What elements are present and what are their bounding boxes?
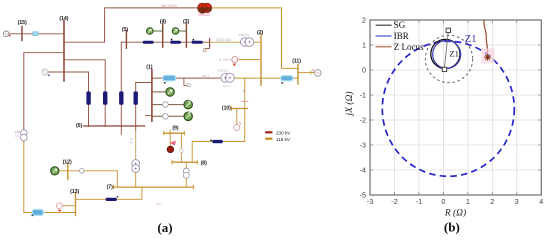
x tick labels [367, 197, 544, 206]
transformer T1 (two red circles, 230/115) [199, 7, 213, 9]
bus 7 bar end ticks [113, 185, 115, 189]
fuse on wire bus9-bus8 [180, 148, 183, 153]
svg-text:115 kV: 115 kV [223, 84, 232, 88]
relay tiny cyan on wire 15-14 [33, 32, 38, 36]
bus 10 bar (horizontal) [232, 108, 248, 110]
svg-text:345-1: 345-1 [202, 74, 210, 78]
svg-text:(9): (9) [172, 126, 179, 132]
wire: feeder4 to bus 1 [136, 82, 152, 84]
wire: bus11 to gen G11 [298, 72, 315, 74]
svg-text:230 kV: 230 kV [276, 130, 291, 135]
svg-text:(13): (13) [70, 189, 79, 195]
svg-text:-1: -1 [416, 197, 422, 206]
axes box [370, 20, 541, 195]
gridlines horizontal [370, 45, 541, 170]
svg-text:(2): (2) [257, 30, 264, 36]
series reactor L4 on feeder4 [134, 91, 138, 104]
transformer T2 (two circles) on line [221, 73, 230, 82]
bus 15 bar [21, 27, 23, 41]
svg-text:(1): (1) [146, 64, 153, 70]
wire: bus9 down to sync condenser SC [169, 133, 171, 146]
svg-text:Z1: Z1 [465, 34, 477, 45]
series element on trunk seg A [143, 41, 154, 44]
wire: bus8 up to line-10 corner [192, 142, 245, 163]
svg-text:(11): (11) [292, 58, 301, 64]
series element on trunk seg C [192, 38, 195, 40]
wire: bus13 to corner to bus7 [76, 187, 142, 199]
sync condenser (red disc) [167, 146, 173, 152]
svg-text:jX (Ω): jX (Ω) [344, 91, 355, 117]
wire: 230kV trunk bus5-bus4-bus3 [121, 41, 209, 43]
wire: bus14 left to west vertical (230 kV) [24, 53, 64, 130]
svg-text:R (Ω): R (Ω) [444, 208, 466, 219]
DG unit W12 (wind) [51, 167, 59, 175]
y tick labels [360, 16, 366, 200]
pink cross tick on vertical [242, 100, 248, 102]
wire: T6 down to bus 7 [135, 173, 137, 188]
red mark at gen G15 terminal [9, 35, 11, 37]
bus labels [18, 16, 302, 195]
bus 8 bar (horizontal) [172, 161, 197, 163]
legend 115 kV [265, 138, 272, 140]
Z locus red curve [484, 20, 488, 54]
node stub with CT at bus-3 line end [209, 39, 211, 47]
svg-text:115: 115 [15, 133, 20, 137]
svg-text:kV: kV [130, 140, 133, 144]
relay R2 (cyan) near bus 11 [281, 76, 293, 81]
DG unit W3 (wind) at bus 3 [179, 30, 187, 32]
svg-text:(15): (15) [18, 20, 27, 26]
wire+transformer T4: bus8 down to bus7 [185, 162, 187, 168]
fault point marker (highlight + asterisk) [481, 48, 494, 63]
svg-text:d1: d1 [242, 89, 246, 93]
svg-text:Z Locus: Z Locus [394, 42, 424, 52]
svg-text:4: 4 [539, 197, 543, 206]
svg-text:0: 0 [362, 66, 366, 75]
svg-text:(8): (8) [201, 161, 208, 167]
PANEL A [3, 0, 321, 235]
svg-text:(b): (b) [444, 220, 460, 235]
red arrow marker [170, 141, 176, 146]
svg-text:N. Shunt: N. Shunt [219, 58, 231, 62]
dashed black circle (outer zone) [425, 35, 472, 82]
generator G15 [3, 31, 9, 37]
IBR impedance locus: large blue dashed circle [382, 41, 514, 176]
svg-text:-2: -2 [360, 116, 366, 125]
bus 9 bar (horizontal) [164, 132, 185, 134]
svg-text:-4: -4 [360, 166, 366, 175]
stub above bus 9 [169, 130, 171, 133]
bus 5 bar [125, 31, 127, 49]
svg-text:1: 1 [466, 197, 470, 206]
bus 11 bar [297, 65, 299, 85]
load circle at bus 13 [63, 205, 76, 207]
svg-text:(7): (7) [107, 184, 114, 190]
bus 12 bar [67, 164, 69, 180]
svg-text:-1: -1 [360, 91, 366, 100]
DG row 3 at bus 1 with switch [152, 115, 184, 117]
stub tick left of bus 1 [146, 115, 152, 117]
svg-text:(4): (4) [160, 19, 167, 25]
series reactor L2 on feeder2 [103, 91, 107, 104]
bus 1 bar [151, 70, 153, 121]
wire: stub to transformer T3 to bus 2 [210, 41, 241, 43]
transformer T6 (two circles) between bus6 feeder and bus 7 [132, 160, 140, 168]
series element on trunk seg B [170, 38, 173, 40]
svg-text:Z1: Z1 [449, 48, 459, 58]
generator G14 [42, 69, 48, 75]
generator G11 [315, 70, 322, 77]
svg-text:-5: -5 [360, 191, 366, 200]
svg-text:(12): (12) [63, 160, 72, 166]
wire: bus9 down to bus8 [180, 133, 182, 162]
svg-text:NLTC 230: NLTC 230 [216, 38, 231, 42]
switch on wire 12 [80, 169, 85, 174]
tick marks [370, 20, 541, 195]
svg-text:115 kV: 115 kV [276, 137, 291, 142]
bus 6 horizontal bus bar [84, 125, 145, 127]
stub with CT below line [184, 78, 187, 85]
svg-text:1 ~~~~: 1 ~~~~ [199, 0, 208, 4]
N.Shunt branch at bus 2 [238, 59, 261, 61]
DG row 1 at bus 1 [152, 91, 166, 93]
bus 13 bar [75, 193, 77, 216]
svg-text:2: 2 [490, 197, 494, 206]
svg-text:(5): (5) [122, 27, 129, 33]
IBR small circle (solid blue) [433, 40, 461, 68]
svg-text:4+2: 4+2 [157, 202, 163, 206]
svg-text:(a): (a) [157, 220, 172, 235]
bus 10 bar left tick [231, 107, 233, 111]
gridlines vertical [395, 20, 517, 195]
pink smudge below T1 [198, 14, 210, 16]
legend [376, 24, 392, 26]
svg-text:-3: -3 [360, 141, 366, 150]
svg-text:(6): (6) [76, 123, 83, 129]
bus 7 bar (horizontal) [114, 186, 194, 188]
wire: bus14 up-over to transformer T1 (230 kV) [64, 8, 199, 42]
wire: T1 to corner to bus 11 (115 kV) [212, 8, 298, 69]
series reactor on line 13-7 [106, 198, 117, 201]
svg-text:-3: -3 [367, 197, 373, 206]
legend 230 kV [265, 131, 272, 133]
SG circle (solid black) [431, 39, 460, 68]
transformer T5 (west, two circles stacked) [21, 130, 28, 137]
PANEL B [344, 16, 543, 235]
transformer T3 (two circles) [241, 38, 250, 47]
feeder 2 vertical [104, 60, 106, 127]
svg-text:(10): (10) [222, 105, 231, 111]
wire: bus10 down to motor M10 [236, 109, 238, 125]
wire: feeder 4 continues down to transformer T6 [135, 131, 137, 160]
wire: bus1 to bus11 line with T2 and relays (y=78) [152, 77, 222, 79]
svg-text:2: 2 [362, 16, 366, 25]
svg-text:Tap 230 kV: Tap 230 kV [161, 4, 178, 8]
feeder 4 vertical [135, 83, 137, 131]
wire: west vertical 115kV down and along bottom to bus 13 [24, 141, 76, 213]
DG unit W4 (wind) at bus 4 [153, 30, 163, 32]
wire: vertical from bus1-bus11 line down through bus10 to corner [244, 78, 246, 141]
tick on gen G11 lead [310, 71, 312, 75]
bus 9 bar end ticks [163, 131, 165, 135]
relay R1 (cyan) near bus 1 [163, 75, 176, 81]
bus 8 bar end ticks [171, 160, 173, 164]
wire: gen G15 to bus 15 to bus 14 (230 kV) [9, 33, 64, 35]
DG row 2 at bus 1 with switch [152, 104, 184, 106]
svg-text:230/115: 230/115 [218, 69, 229, 73]
feeder 1: vertical with series reactor to bus 6 [88, 72, 90, 127]
wire: bus14 to vertical feeder 2 [64, 59, 105, 61]
plot box [370, 20, 541, 195]
diameter line with square markers [445, 32, 449, 67]
relay R3 (cyan) on bottom wire [32, 209, 43, 215]
wire: gen G14 to bus 14 [48, 71, 89, 73]
svg-text:3: 3 [515, 197, 519, 206]
bus 3 bar [185, 23, 187, 47]
svg-text:230/115: 230/115 [239, 33, 250, 37]
svg-text:SG: SG [394, 20, 406, 30]
svg-text:(3): (3) [183, 19, 190, 25]
bus 14 bar [63, 21, 65, 82]
svg-text:0: 0 [441, 197, 445, 206]
series reactor L1 on feeder1 [86, 91, 90, 104]
svg-text:1: 1 [362, 41, 366, 50]
series reactor on line 8-10 [210, 139, 213, 141]
feeder 3 vertical [120, 42, 122, 134]
svg-text:(14): (14) [59, 16, 68, 22]
series reactor L3 on feeder3 [119, 91, 123, 104]
bus 4 bar [162, 23, 164, 47]
wire: DG12 to bus12 to corner to bus7 [59, 170, 117, 172]
svg-text:-2: -2 [391, 197, 397, 206]
bus 2 bar [260, 35, 262, 86]
motor M10 [234, 124, 240, 130]
svg-text:IBR: IBR [394, 31, 409, 41]
